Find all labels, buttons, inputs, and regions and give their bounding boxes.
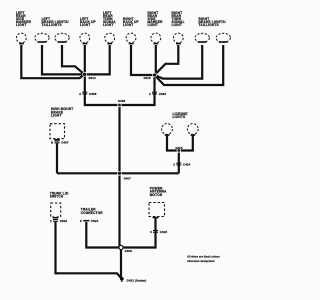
wire: left rear turn signal to S314 bbox=[85, 45, 110, 74]
wire: S316 down through C424 to S407 bus bbox=[178, 151, 180, 174]
svg-text:F: F bbox=[80, 219, 82, 223]
wire: left back up light into S314 bbox=[84, 45, 86, 74]
power antenna motor bbox=[149, 186, 167, 218]
lamp: left back up light bbox=[80, 17, 97, 44]
svg-text:C323: C323 bbox=[159, 92, 167, 96]
svg-text:CONNECTOR: CONNECTOR bbox=[81, 211, 104, 215]
wire: left brake/taillight 2 to S314 bbox=[62, 45, 85, 74]
splice S316 bbox=[175, 146, 182, 152]
lamp: left rear turn signal light bbox=[103, 11, 116, 45]
wire: S407 horizontal bus bbox=[57, 172, 179, 174]
lamp: license light 1 bbox=[162, 112, 188, 136]
svg-text:1: 1 bbox=[50, 219, 52, 223]
svg-text:2: 2 bbox=[149, 92, 151, 96]
splice S315 bbox=[144, 73, 157, 80]
svg-text:S406: S406 bbox=[125, 249, 132, 253]
svg-text:2: 2 bbox=[173, 163, 175, 167]
svg-text:S407: S407 bbox=[124, 176, 131, 180]
svg-text:C524: C524 bbox=[91, 219, 99, 223]
wire: trailer connector down to S406 bbox=[86, 222, 121, 248]
svg-text:S314: S314 bbox=[89, 76, 96, 80]
ground G421 bbox=[120, 277, 146, 283]
wire: right brake/taillight 2 to S315 bbox=[155, 45, 224, 85]
svg-text:All wires are black unless: All wires are black unless bbox=[187, 255, 220, 259]
svg-text:C522: C522 bbox=[60, 219, 68, 223]
svg-text:2: 2 bbox=[79, 92, 81, 96]
splice S407 bbox=[118, 171, 132, 180]
connector C522 pin 1 bbox=[50, 219, 67, 223]
svg-text:LIGHT: LIGHT bbox=[123, 23, 133, 27]
wire: S406 down to ground G421 bbox=[120, 248, 122, 279]
wire: right rear turn signal to S315 bbox=[155, 45, 179, 75]
svg-text:LIGHT: LIGHT bbox=[172, 23, 182, 27]
wire: right brake/taillight 1 to S315 bbox=[155, 45, 203, 79]
svg-text:LIGHTS: LIGHTS bbox=[173, 115, 186, 119]
lamp: right rear side marker light bbox=[148, 11, 164, 45]
svg-text:TAILLIGHTS: TAILLIGHTS bbox=[42, 23, 62, 27]
wire: power antenna motor down through C423 to S406 bbox=[121, 218, 156, 248]
lamp: right back up light bbox=[123, 17, 139, 44]
trunk lid switch bbox=[50, 191, 69, 218]
wire: license lights join at S316 bbox=[167, 136, 193, 151]
svg-text:S316: S316 bbox=[175, 146, 182, 150]
connector C407 pin B bbox=[51, 141, 69, 145]
connector C424 pin 2 bbox=[173, 163, 190, 167]
svg-text:C407: C407 bbox=[61, 141, 69, 145]
connector C423 pin 3 bbox=[150, 230, 167, 234]
connector C323 pin 2 bbox=[149, 92, 166, 96]
svg-text:S315: S315 bbox=[144, 76, 151, 80]
svg-text:C423: C423 bbox=[160, 230, 168, 234]
svg-text:LIGHT: LIGHT bbox=[51, 114, 61, 118]
svg-text:LIGHT: LIGHT bbox=[80, 23, 90, 27]
svg-text:MOTOR: MOTOR bbox=[150, 193, 163, 197]
high mount brake light bbox=[50, 107, 73, 140]
svg-text:otherwise designated: otherwise designated bbox=[187, 259, 215, 263]
svg-text:3: 3 bbox=[150, 230, 152, 234]
svg-text:LIGHT: LIGHT bbox=[16, 23, 26, 27]
svg-text:TAILLIGHTS: TAILLIGHTS bbox=[199, 23, 219, 27]
trailer connector terminal F/C524 bbox=[80, 208, 103, 223]
lamp: right brake lights/taillights bulb 2 bbox=[199, 17, 231, 43]
lamp: license light 2 bbox=[187, 124, 198, 136]
connector C308 pin 2 bbox=[79, 92, 96, 96]
wire: high mount brake light down to S407 bbox=[56, 144, 58, 174]
svg-text:C424: C424 bbox=[183, 163, 191, 167]
svg-text:LIGHT: LIGHT bbox=[148, 23, 158, 27]
wire: left brake/taillight 1 to S314 bbox=[42, 45, 85, 74]
svg-text:LIGHT: LIGHT bbox=[103, 23, 113, 27]
lamp: left brake lights/taillights bulb 1 bbox=[35, 33, 49, 43]
wire: S315 down through C323 to S408 bus bbox=[120, 75, 155, 105]
splice S406 bbox=[119, 245, 132, 252]
lamp: left brake lights/taillights bulb 2 bbox=[42, 17, 70, 43]
lamp: left rear side marker light bbox=[16, 11, 32, 45]
splice S408 bbox=[118, 99, 126, 107]
splice S314 bbox=[83, 72, 96, 79]
wire: left rear side marker to S314 bbox=[21, 45, 84, 78]
svg-text:S408: S408 bbox=[118, 99, 125, 103]
svg-text:G421 (Sedan): G421 (Sedan) bbox=[127, 279, 147, 283]
note: wire color bbox=[187, 255, 220, 263]
wire: trunk lid switch to ground bbox=[56, 222, 122, 279]
lamp: right brake lights/taillights bulb 1 bbox=[195, 33, 209, 43]
svg-text:C308: C308 bbox=[89, 92, 97, 96]
lamp: right rear turn signal light bbox=[172, 11, 185, 45]
svg-text:SWITCH: SWITCH bbox=[50, 195, 64, 199]
wire: right rear side marker into S315 bbox=[155, 45, 157, 75]
wire: S314 down through C308 to S408 bus bbox=[85, 74, 120, 105]
wire: main vertical S408 to S406 bbox=[118, 105, 120, 248]
wire: right back up light to S315 bbox=[131, 45, 155, 75]
